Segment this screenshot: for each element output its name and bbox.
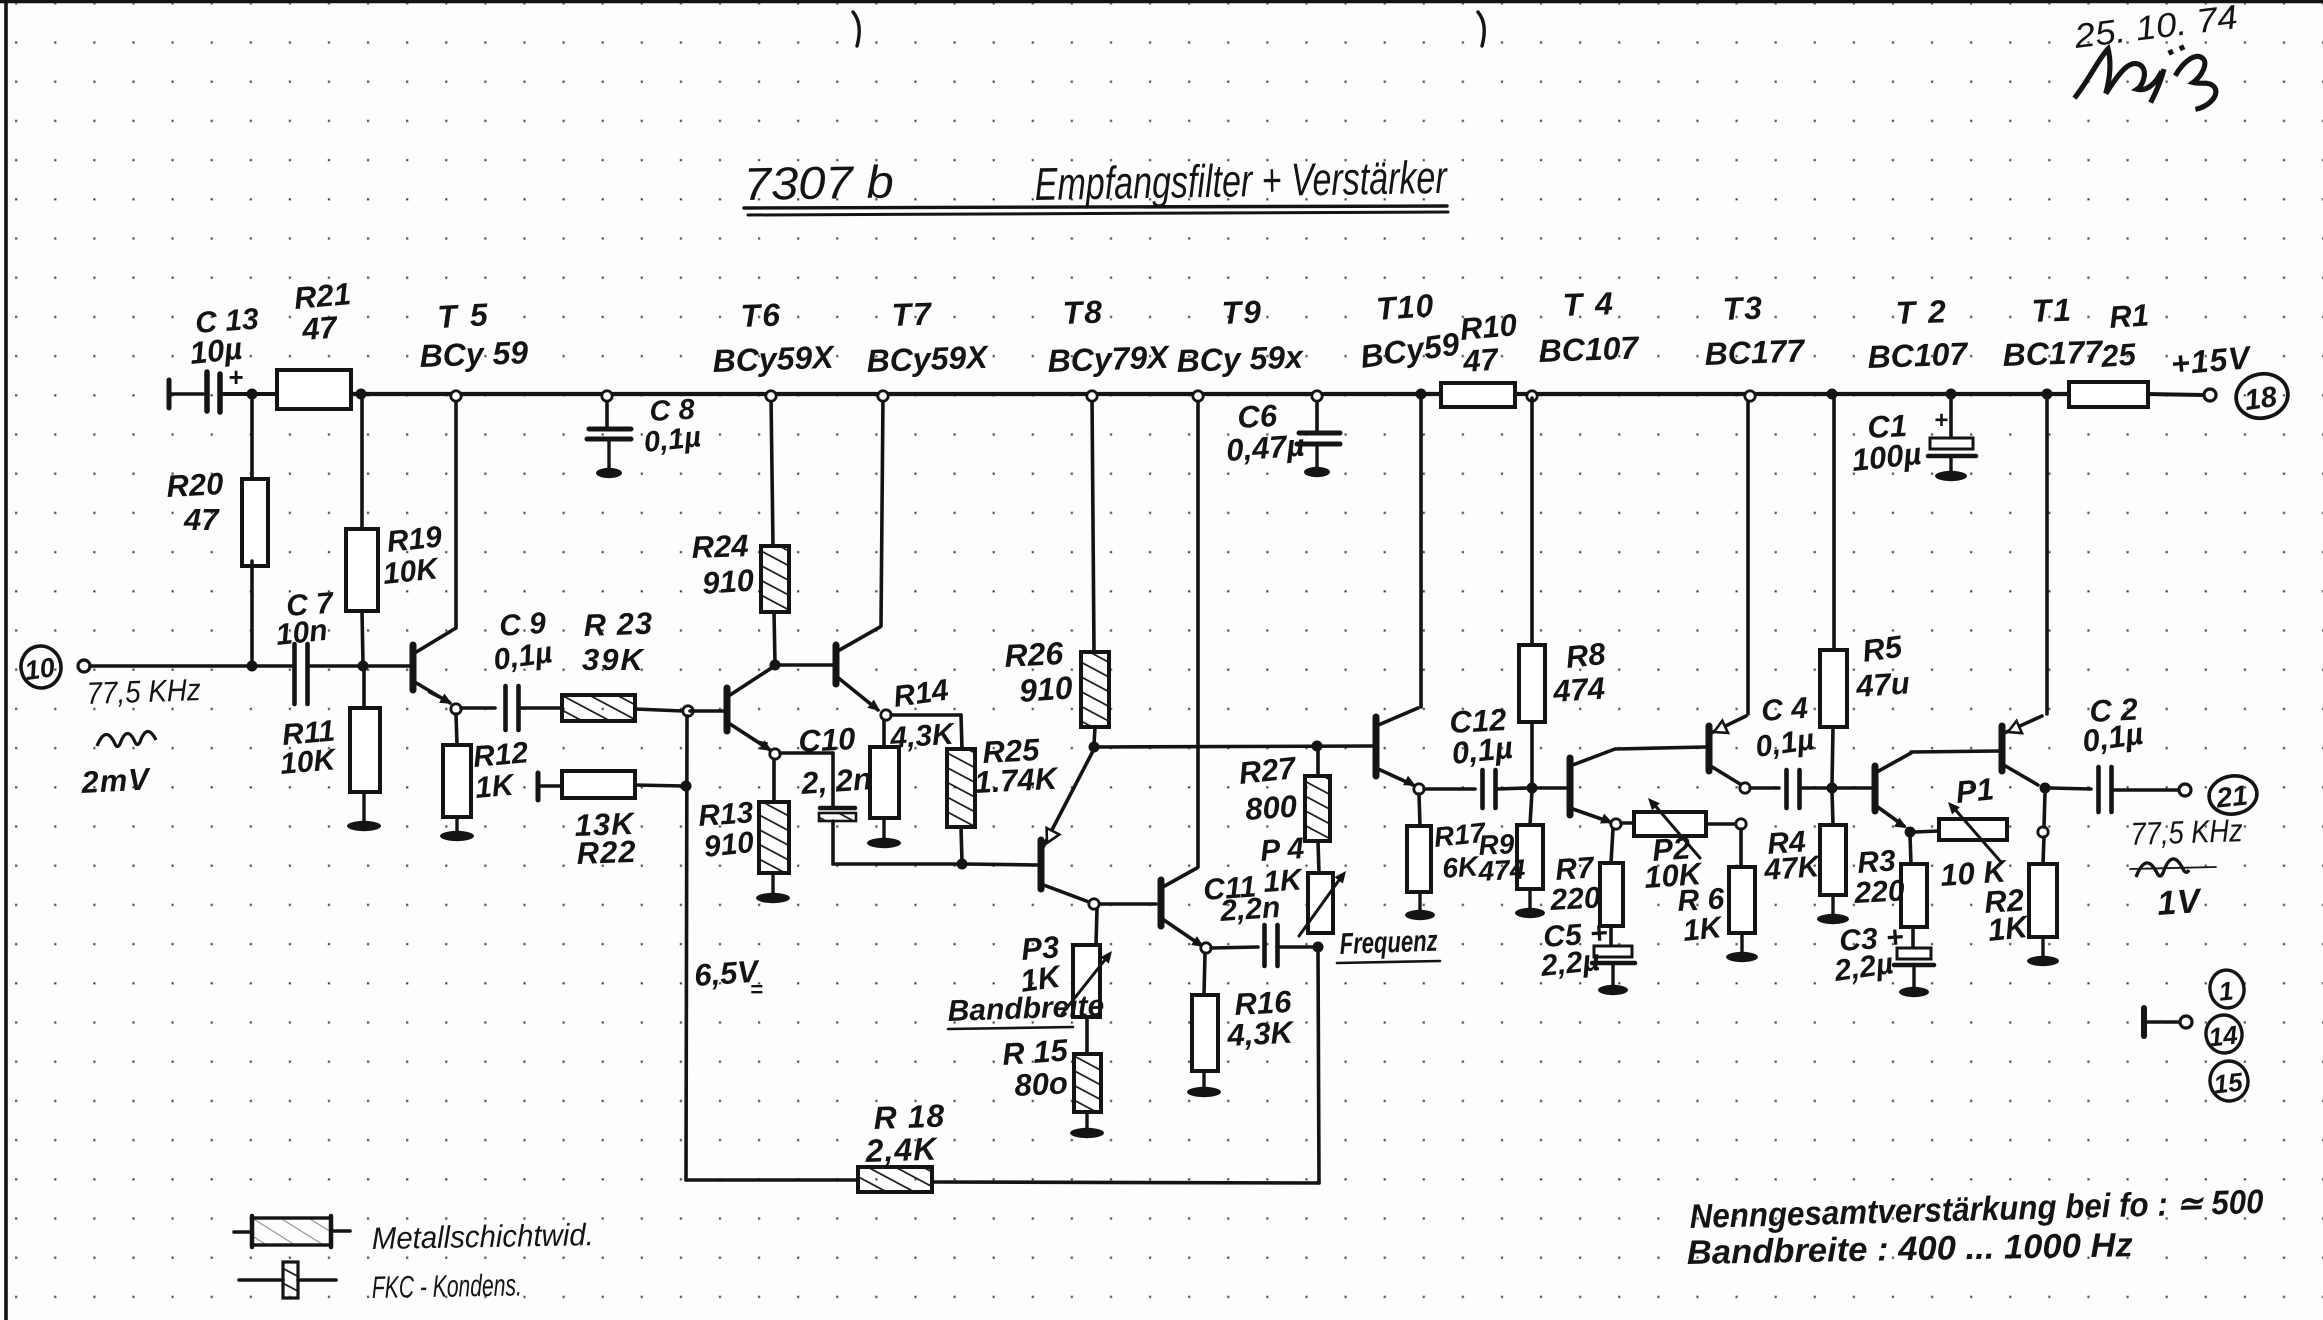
- label P2: [1643, 830, 1705, 895]
- terminal bar 14: [2141, 1008, 2147, 1036]
- svg-text:BC107: BC107: [1867, 335, 1970, 375]
- terminal open circle 14: [2180, 1016, 2192, 1028]
- svg-text:80o: 80o: [1014, 1065, 1069, 1103]
- node R26 bottom: [1089, 742, 1100, 753]
- svg-text:T7: T7: [891, 296, 934, 333]
- wire T4e to R7: [1611, 829, 1613, 863]
- svg-text:=: =: [750, 977, 763, 1002]
- label C4: [1753, 692, 1816, 764]
- capacitor C12: [1483, 770, 1496, 808]
- label C3: [1831, 921, 1904, 988]
- label T9: [1176, 294, 1305, 379]
- label R11: [279, 714, 339, 780]
- label T6: [712, 297, 836, 379]
- label R4: [1762, 825, 1823, 887]
- wire T9e to C11: [1211, 947, 1258, 948]
- node T7 emitter: [881, 710, 891, 720]
- terminal circle 10: [18, 643, 65, 691]
- node rail R10 right: [1527, 391, 1537, 401]
- wire C9 to R23: [519, 706, 562, 710]
- resistor R13 metal film: [759, 802, 789, 873]
- wire input to C7: [90, 664, 295, 667]
- svg-text:BCy79X: BCy79X: [1047, 339, 1171, 379]
- wire R9 stub: [1530, 791, 1532, 825]
- terminal circle 18: [2232, 369, 2292, 423]
- transistor T9: [1161, 868, 1204, 947]
- node T8 collector: [1089, 899, 1099, 909]
- label C5: [1538, 917, 1608, 983]
- node T9 emitter: [1201, 943, 1211, 953]
- label 77,5 KHz in: [86, 672, 202, 711]
- svg-text:R27: R27: [1237, 750, 1299, 791]
- svg-text:0,1µ: 0,1µ: [1450, 730, 1514, 771]
- node rail T7: [878, 391, 888, 401]
- label C1: [1850, 408, 1923, 478]
- node P2 right: [1736, 819, 1746, 829]
- wire R11 top: [362, 668, 366, 708]
- label C6: [1225, 398, 1306, 468]
- label 6,5V: [693, 953, 763, 1002]
- node rail T9: [1193, 391, 1203, 401]
- svg-text:Metallschichtwid.: Metallschichtwid.: [372, 1217, 595, 1256]
- wire C7 to node: [308, 664, 361, 668]
- svg-text:T8: T8: [1062, 294, 1105, 331]
- wire T2e to P1: [1915, 831, 1939, 832]
- sine symbol output: [2130, 859, 2216, 877]
- svg-text:10K: 10K: [381, 552, 442, 591]
- date 25.10.74: [2071, 0, 2239, 56]
- wire T2 base: [1836, 786, 1871, 790]
- label R8: [1551, 636, 1608, 709]
- resistor R17: [1407, 826, 1431, 892]
- capacitor C6: [1297, 433, 1340, 444]
- transistor T2: [1875, 753, 1911, 828]
- svg-text:39K: 39K: [582, 642, 645, 677]
- svg-text:10n: 10n: [274, 614, 329, 652]
- svg-text:R8: R8: [1564, 636, 1608, 675]
- ground R12: [440, 817, 474, 841]
- capacitor C4: [1787, 770, 1800, 808]
- svg-text:10K: 10K: [279, 743, 339, 781]
- border top edge: [0, 0, 2323, 3]
- resistor R9: [1517, 825, 1543, 889]
- label 1V out: [2156, 882, 2204, 923]
- wire feedback vertical: [686, 716, 687, 1180]
- wire C12 to node: [1496, 788, 1528, 789]
- svg-text:T10: T10: [1375, 287, 1436, 327]
- node R25 bottom: [957, 859, 968, 870]
- ground R11: [347, 792, 381, 831]
- label R19: [381, 520, 443, 591]
- terminal circle 15: [2207, 1058, 2251, 1104]
- transistor T1 pnp: [2002, 396, 2047, 785]
- label R12: [472, 736, 530, 805]
- svg-text:47: 47: [300, 310, 340, 348]
- svg-text:1V: 1V: [2156, 882, 2204, 923]
- label +15V: [2169, 339, 2253, 382]
- wire C10 to R25 node: [833, 862, 958, 866]
- node T3 collector: [1740, 783, 1750, 793]
- wire C6 stub: [1315, 397, 1319, 432]
- label R13: [697, 796, 756, 864]
- wire C4 to node: [1800, 786, 1828, 790]
- transistor T5: [413, 396, 456, 704]
- label Bandbreite: [947, 990, 1105, 1029]
- capacitor C3: [1894, 927, 1934, 965]
- wire P1 to R2: [2043, 837, 2044, 864]
- node rail R26: [1087, 391, 1097, 401]
- resistor R10: [1441, 383, 1515, 407]
- legend label FKC: [372, 1267, 523, 1305]
- label C12: [1449, 702, 1515, 771]
- ground R17: [1405, 892, 1435, 920]
- label T3: [1704, 290, 1807, 372]
- svg-text:+15V: +15V: [2169, 339, 2253, 382]
- label 77,5 KHz out: [2130, 812, 2243, 852]
- capacitor C2: [2099, 767, 2112, 812]
- label C10: [798, 721, 873, 801]
- wire R5 rail: [1832, 396, 1836, 650]
- wire T4c to T3 base: [1616, 747, 1705, 749]
- svg-text:1.74K: 1.74K: [974, 761, 1061, 800]
- wire T1c down to P1: [2044, 793, 2045, 827]
- svg-text:Bandbreite : 400 ... 1000: Bandbreite : 400 ... 1000 Hz: [1686, 1226, 2133, 1272]
- wire T8c down to P3: [1096, 909, 1097, 944]
- potentiometer P4: [1299, 871, 1346, 936]
- svg-text:25: 25: [2099, 337, 2138, 374]
- label R25: [974, 732, 1061, 800]
- wire R4 stub: [1832, 791, 1833, 825]
- label P1: [1939, 771, 2009, 893]
- transistor T8 pnp: [1041, 751, 1093, 902]
- svg-text:800: 800: [1244, 788, 1298, 827]
- wire R26 top: [1092, 396, 1094, 652]
- label R27: [1237, 750, 1299, 827]
- node rail T3: [1745, 391, 1755, 401]
- svg-text:77,5 KHz: 77,5 KHz: [86, 672, 202, 711]
- svg-text:1K: 1K: [1986, 909, 2032, 948]
- wire T7e to R25: [891, 715, 962, 749]
- svg-text:R20: R20: [166, 466, 225, 504]
- label P3: [1018, 929, 1065, 999]
- node T10 emitter: [1414, 784, 1424, 794]
- label C13: [188, 303, 260, 371]
- legend capacitor symbol: [239, 1262, 336, 1298]
- title underline: [744, 206, 1448, 215]
- svg-text:474: 474: [1477, 854, 1527, 887]
- node T5 emitter: [451, 704, 461, 714]
- ground C5: [1598, 965, 1628, 995]
- label T10: [1358, 287, 1462, 375]
- svg-text:7307 b: 7307 b: [743, 155, 894, 210]
- wire terminal 14: [2147, 1020, 2178, 1023]
- registration mark left: [853, 12, 859, 46]
- label T7: [866, 296, 990, 379]
- node P1 right: [2038, 827, 2048, 837]
- svg-text:910: 910: [702, 826, 756, 864]
- wire T1c to C2: [2050, 788, 2091, 789]
- ground R6: [1726, 933, 1758, 962]
- wire feedback horizontal right: [932, 950, 1319, 1183]
- label R24: [691, 528, 755, 601]
- wire T2c to T1: [1911, 751, 1999, 752]
- resistor R21: [277, 370, 351, 409]
- svg-text:BC177: BC177: [1704, 332, 1807, 372]
- label R9: [1477, 828, 1527, 887]
- resistor R8: [1519, 645, 1545, 722]
- node C12 R8: [1527, 783, 1538, 794]
- node T1 collector: [2040, 783, 2051, 794]
- wire R25 bottom: [961, 827, 962, 862]
- svg-text:R22: R22: [576, 834, 637, 871]
- label C2: [2080, 692, 2145, 759]
- capacitor C7: [295, 644, 308, 704]
- svg-text:T 5: T 5: [436, 296, 490, 335]
- wire T9e to R16: [1204, 953, 1205, 995]
- svg-text:+: +: [1934, 407, 1948, 434]
- terminal bar at C13 input: [167, 380, 172, 408]
- svg-text:C10: C10: [798, 721, 857, 759]
- node C4 R5 T2: [1827, 783, 1838, 794]
- wire T2e to R3: [1910, 835, 1911, 864]
- label T5: [419, 296, 529, 374]
- ground R14: [867, 818, 901, 848]
- svg-text:Frequenz: Frequenz: [1339, 925, 1438, 961]
- label C8: [642, 394, 702, 459]
- wire T10e to C12: [1424, 787, 1475, 791]
- label T8: [1047, 294, 1171, 379]
- label 2mV: [80, 761, 153, 800]
- svg-text:47: 47: [183, 502, 220, 537]
- wire R17 stub: [1419, 794, 1420, 826]
- wire R24 top: [771, 396, 773, 546]
- terminal bar R22: [536, 773, 541, 800]
- label T2: [1867, 293, 1970, 375]
- svg-text:R5: R5: [1860, 629, 1905, 669]
- label P4: [1259, 832, 1305, 899]
- wire R22 to vert node: [635, 785, 684, 786]
- svg-text:BCy 59: BCy 59: [419, 334, 529, 374]
- terminal open circle input: [78, 660, 90, 672]
- resistor R7: [1600, 863, 1623, 926]
- wire T9 collector: [1196, 396, 1200, 867]
- node below C13: [247, 389, 258, 400]
- resistor R4: [1820, 825, 1846, 895]
- node T4 emitter: [1611, 819, 1621, 829]
- wire P2 to R6: [1739, 829, 1743, 867]
- label R1: [2099, 297, 2150, 374]
- wire P2 right lead: [1706, 822, 1735, 826]
- label R16: [1226, 984, 1297, 1053]
- capacitor C13: [207, 362, 243, 412]
- node R22 junction: [681, 781, 692, 792]
- wire T7 base: [777, 663, 832, 667]
- svg-text:T1: T1: [2031, 292, 2074, 329]
- svg-text:R10: R10: [1459, 307, 1519, 347]
- svg-text:10: 10: [23, 652, 57, 686]
- node rail C1: [1946, 389, 1957, 400]
- terminal circle 21: [2207, 773, 2260, 817]
- wire R20 top: [250, 396, 254, 479]
- wire T10 base: [1098, 746, 1372, 747]
- ground C1: [1935, 456, 1967, 481]
- resistor R1: [2069, 382, 2148, 407]
- wire T6e to C10: [780, 753, 833, 806]
- ground R9: [1515, 889, 1545, 918]
- svg-text:77,5 KHz: 77,5 KHz: [2130, 812, 2243, 852]
- svg-text:220: 220: [1853, 874, 1906, 910]
- potentiometer P1: [1939, 802, 2007, 862]
- label R26: [1003, 635, 1073, 709]
- svg-text:15: 15: [2212, 1067, 2244, 1100]
- node below P4: [1313, 942, 1324, 953]
- transistor T10: [1376, 396, 1421, 786]
- capacitor C8: [587, 429, 631, 439]
- node rail C6: [1312, 391, 1322, 401]
- wire T8c to T9 base: [1100, 902, 1156, 906]
- label R2: [1983, 882, 2032, 948]
- wire R8 top: [1530, 398, 1534, 645]
- sine symbol input: [97, 731, 156, 746]
- svg-text:100µ: 100µ: [1850, 436, 1923, 478]
- label R7: [1549, 851, 1602, 917]
- svg-text:2, 2n: 2, 2n: [799, 761, 873, 801]
- legend label Metallschichtwid: [372, 1217, 595, 1256]
- svg-text:910: 910: [701, 562, 755, 601]
- svg-text:47: 47: [1461, 342, 1501, 380]
- potentiometer P2: [1634, 798, 1706, 858]
- svg-text:21: 21: [2214, 780, 2249, 814]
- ground R15: [1070, 1112, 1104, 1138]
- svg-text:2,4K: 2,4K: [864, 1130, 940, 1169]
- svg-text:1K: 1K: [1681, 911, 1725, 948]
- node rail T10: [1416, 389, 1427, 400]
- label R14: [888, 674, 957, 756]
- note Bandbreite: [1686, 1226, 2133, 1272]
- node T5 base: [358, 661, 369, 672]
- svg-text:47K: 47K: [1762, 850, 1823, 887]
- node R21 right: [356, 389, 367, 400]
- wire node to T5: [365, 664, 409, 668]
- ground R2: [2027, 937, 2059, 966]
- svg-text:T 2: T 2: [1895, 293, 1948, 331]
- node rail T5: [451, 391, 461, 401]
- svg-text:T3: T3: [1722, 290, 1765, 327]
- node rail C8: [602, 391, 612, 401]
- terminal open circle output: [2179, 784, 2191, 796]
- svg-text:1K: 1K: [1262, 863, 1305, 899]
- svg-text:Bandbreite: Bandbreite: [947, 990, 1105, 1028]
- wire T4e to P2: [1621, 821, 1634, 825]
- wire C2 to out: [2112, 788, 2178, 792]
- svg-text:18: 18: [2243, 381, 2280, 417]
- capacitor C11: [1265, 925, 1278, 966]
- label R20: [166, 466, 225, 537]
- title text: [743, 151, 1448, 210]
- svg-text:2,2µ: 2,2µ: [1538, 944, 1601, 983]
- wire T6e to R13: [772, 759, 776, 802]
- ground R4: [1817, 895, 1849, 924]
- resistor R16: [1192, 995, 1218, 1071]
- wire T3c to C4: [1750, 786, 1779, 790]
- label R22: [574, 806, 637, 871]
- wire C8 stub: [605, 398, 609, 426]
- resistor R27 metal film: [1305, 776, 1330, 841]
- resistor R25 metal film: [947, 749, 975, 827]
- svg-text:R12: R12: [472, 736, 530, 774]
- wire R22 left lead: [540, 784, 562, 788]
- wire R19 top: [360, 396, 364, 529]
- svg-text:6K: 6K: [1441, 850, 1481, 884]
- wire R5 bottom: [1832, 727, 1833, 786]
- potentiometer P3: [1062, 945, 1112, 1017]
- wire R20 bottom: [250, 561, 254, 664]
- svg-text:47u: 47u: [1854, 665, 1911, 704]
- node input R20: [247, 661, 258, 672]
- capacitor C1: [1928, 396, 1976, 456]
- svg-text:T6: T6: [740, 297, 783, 334]
- resistor R22: [562, 771, 635, 798]
- transistor T3 pnp: [1709, 396, 1748, 784]
- node T6 emitter: [770, 749, 780, 759]
- label R17: [1432, 817, 1488, 884]
- terminal circle 14: [2203, 1012, 2245, 1056]
- wire feedback horizontal left: [686, 1178, 858, 1182]
- svg-text:4,3K: 4,3K: [1226, 1014, 1297, 1053]
- svg-text:T9: T9: [1221, 294, 1264, 331]
- resistor R24 metal film: [761, 546, 789, 612]
- transistor T4: [1570, 749, 1615, 824]
- wire P3 to R15: [1085, 1017, 1089, 1054]
- svg-text:BCy59X: BCy59X: [866, 339, 990, 379]
- label T1: [2002, 292, 2105, 373]
- label R21: [293, 276, 353, 347]
- wire R24 bottom: [774, 612, 775, 663]
- svg-text:R 23: R 23: [583, 606, 654, 643]
- svg-text:910: 910: [1018, 669, 1074, 709]
- svg-text:R1: R1: [2108, 297, 2150, 335]
- svg-text:10µ: 10µ: [188, 331, 244, 371]
- node rail R5: [1827, 389, 1838, 400]
- label R6: [1677, 883, 1726, 948]
- resistor R2: [2029, 864, 2057, 937]
- svg-text:220: 220: [1549, 881, 1602, 917]
- label R3: [1853, 844, 1906, 910]
- transistor T6: [690, 667, 773, 751]
- svg-text:0,47µ: 0,47µ: [1225, 428, 1306, 468]
- label C11: [1202, 870, 1281, 928]
- wire T4 base: [1536, 786, 1566, 790]
- node T6 base: [683, 706, 693, 716]
- resistor R5: [1820, 650, 1847, 727]
- resistor R19: [346, 529, 378, 611]
- wire R8 bottom: [1530, 722, 1534, 786]
- node R27 top: [1312, 741, 1323, 752]
- svg-text:1K: 1K: [474, 769, 517, 805]
- resistor R11: [350, 708, 380, 792]
- wire R27 to P4: [1318, 841, 1319, 873]
- svg-text:0,1µ: 0,1µ: [642, 421, 702, 459]
- wire R23 to T6 node: [635, 709, 683, 711]
- border left edge: [4, 0, 8, 1320]
- label R5: [1854, 629, 1911, 704]
- resistor R14: [870, 747, 899, 818]
- label R23: [582, 606, 654, 677]
- resistor R15 metal film: [1074, 1054, 1101, 1112]
- wire T5e to C9: [461, 706, 495, 710]
- svg-text:R24: R24: [691, 528, 749, 565]
- svg-text:2mV: 2mV: [80, 761, 153, 800]
